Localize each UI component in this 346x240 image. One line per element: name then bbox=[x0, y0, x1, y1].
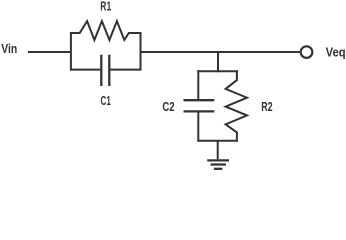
wire bottom of C2R2 parallel bbox=[197, 140, 238, 142]
wire to output bbox=[141, 51, 300, 53]
wire ground stem bbox=[217, 141, 219, 160]
svg-text:Veq: Veq bbox=[326, 45, 346, 60]
terminal Veq output circle bbox=[301, 46, 313, 58]
svg-text:R2: R2 bbox=[261, 99, 272, 114]
svg-text:C2: C2 bbox=[162, 99, 174, 114]
wire top of C2R2 parallel bbox=[197, 70, 238, 72]
capacitor C2 top lead bbox=[197, 70, 199, 99]
capacitor C2 bottom lead bbox=[197, 112, 199, 141]
svg-text:R1: R1 bbox=[100, 0, 111, 14]
node right bar of R1C1 parallel bbox=[140, 32, 142, 71]
svg-text:C1: C1 bbox=[101, 93, 111, 108]
capacitor C1 plates bbox=[100, 55, 102, 86]
wire tap junction down bbox=[217, 52, 219, 72]
ground bbox=[207, 160, 229, 168]
resistor R2 bbox=[226, 70, 247, 142]
wire Vin input bbox=[28, 51, 71, 53]
node left bar of R1C1 parallel bbox=[70, 32, 72, 71]
resistor R1 bbox=[71, 21, 142, 40]
svg-text:Vin: Vin bbox=[1, 41, 17, 56]
capacitor C2 plates bbox=[184, 99, 215, 101]
capacitor C1 leads bbox=[71, 69, 100, 71]
